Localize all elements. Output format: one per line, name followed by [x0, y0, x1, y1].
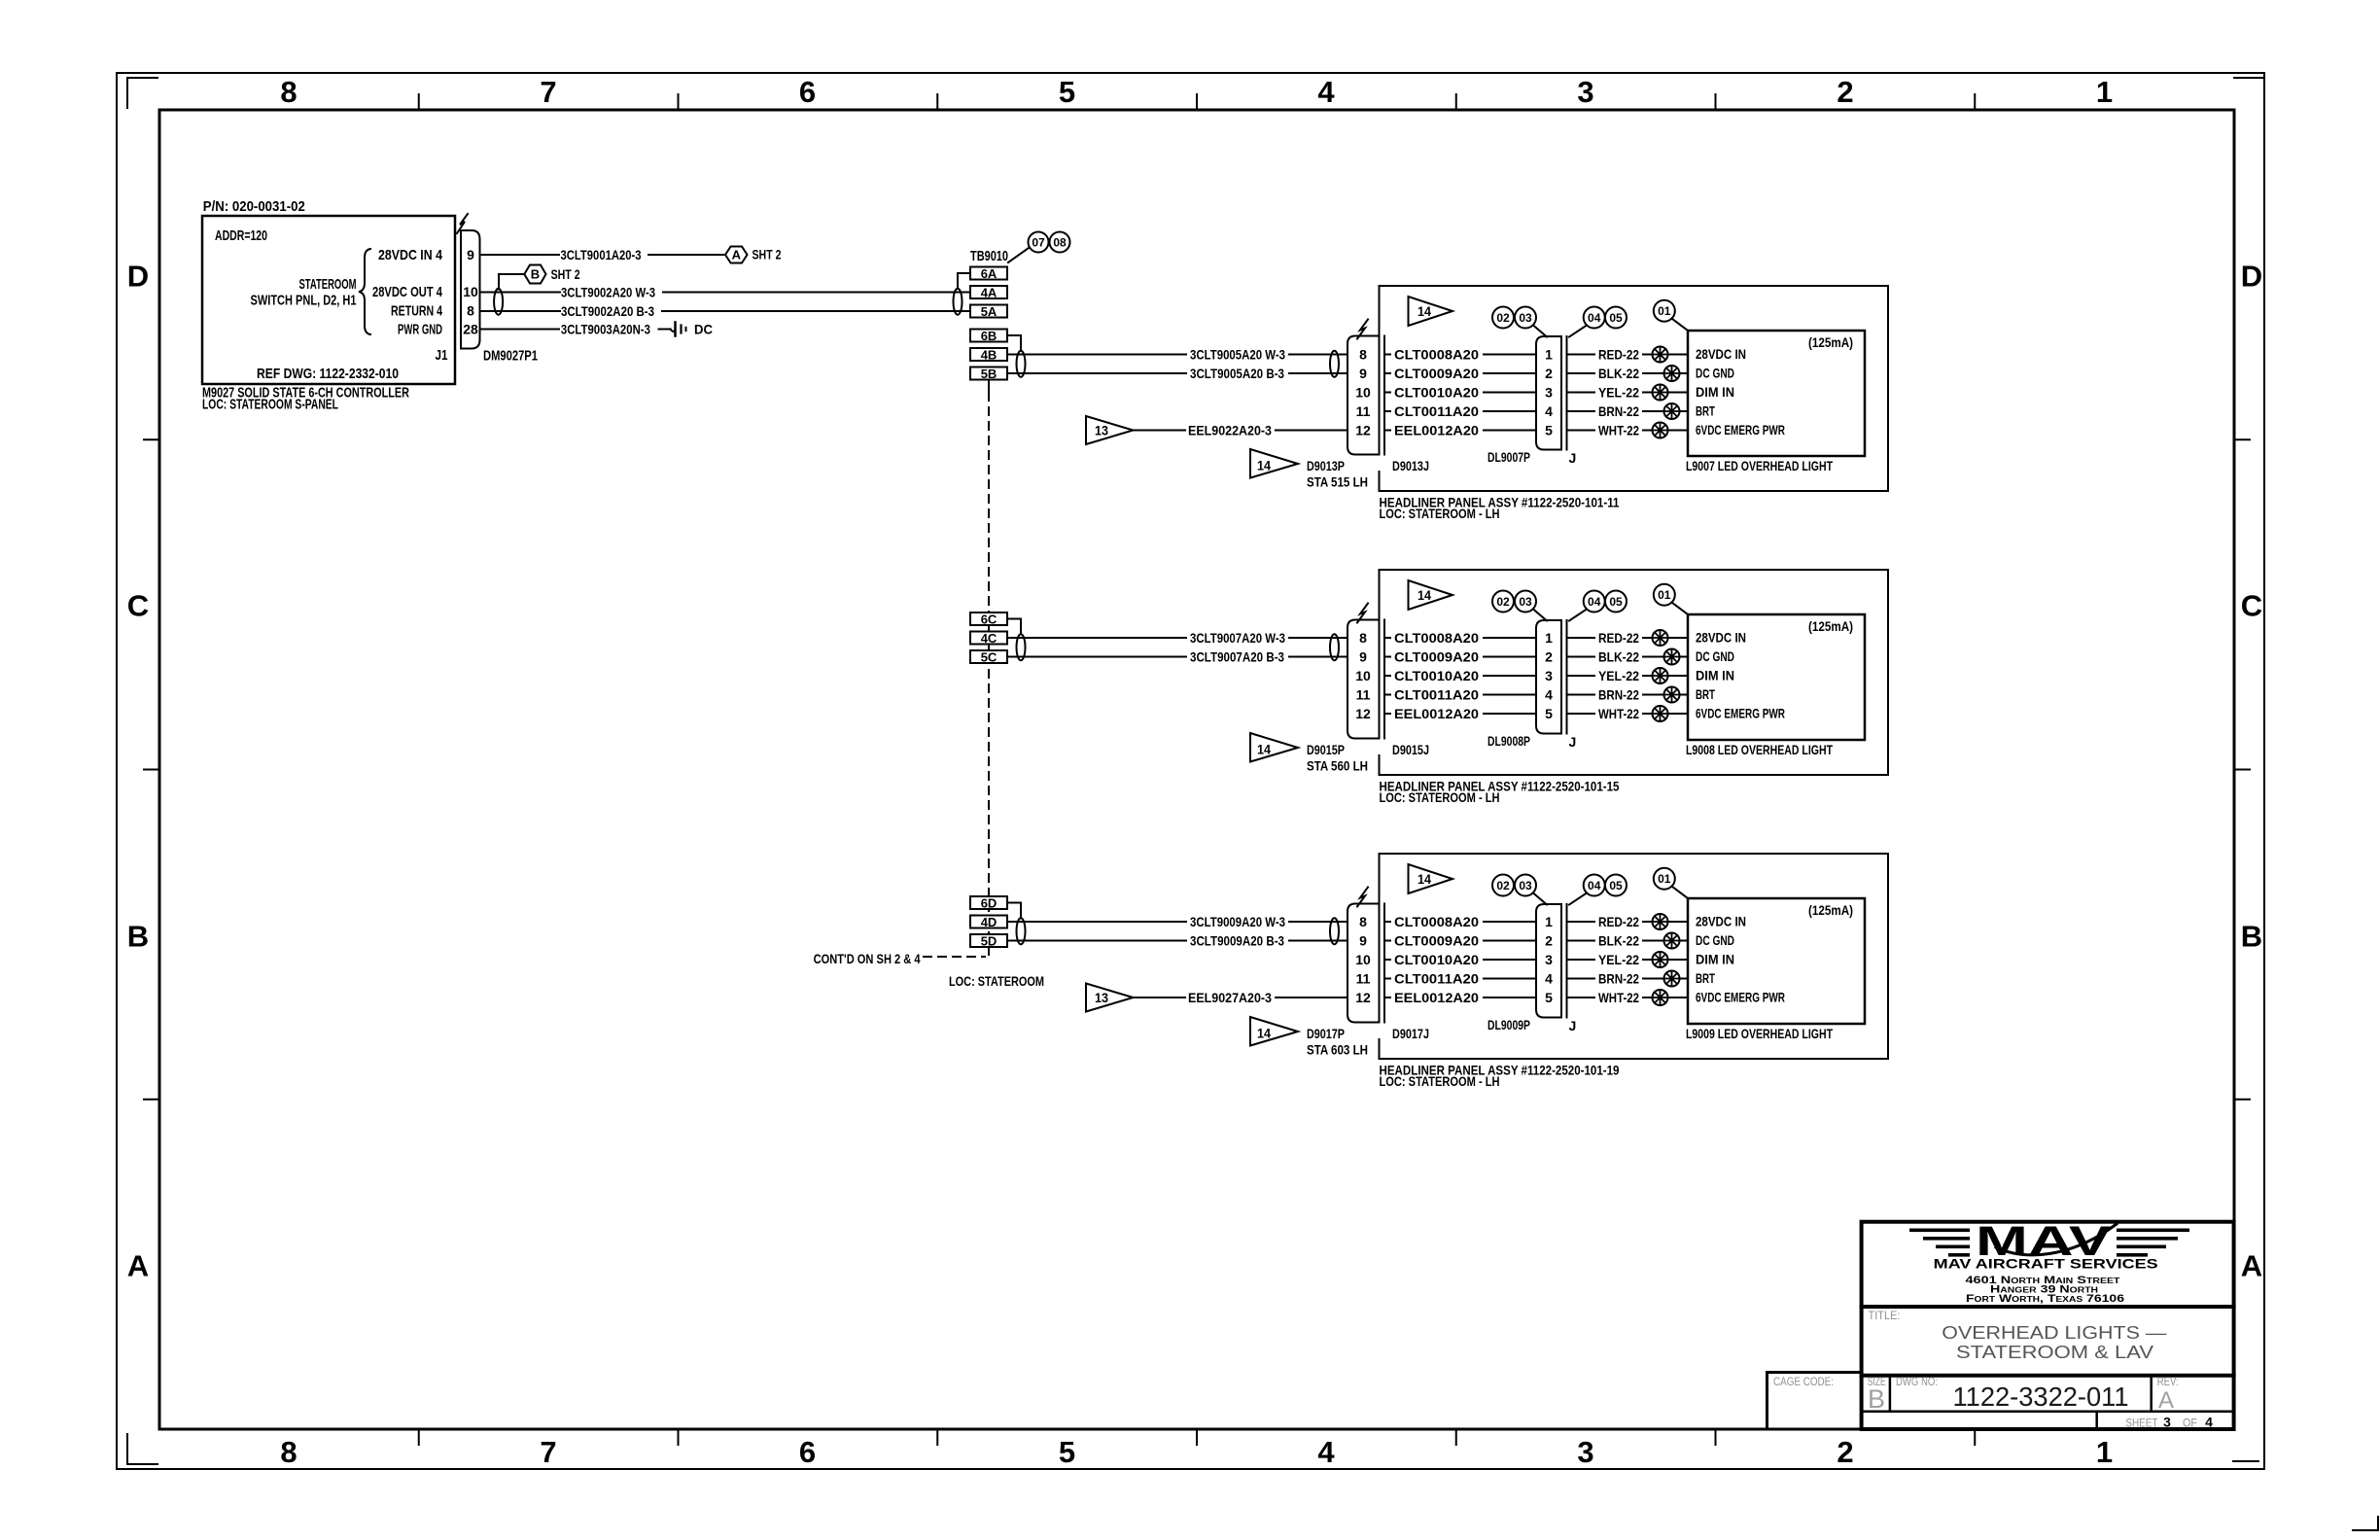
svg-text:9: 9 [1359, 933, 1367, 949]
connector DL9009P shell [1536, 904, 1561, 1018]
corner mark top-left [127, 78, 157, 108]
svg-text:6C: 6C [981, 612, 997, 627]
connector P label D9013P [1307, 458, 1368, 490]
wire BLK-22 with lamp [1567, 366, 1689, 381]
svg-text:1122-3322-011: 1122-3322-011 [1953, 1382, 2129, 1412]
function circles 04 05 [1584, 307, 1627, 329]
light port labels [1696, 914, 1785, 1005]
svg-text:WHT-22: WHT-22 [1598, 423, 1639, 438]
svg-text:CLT0010A20: CLT0010A20 [1394, 385, 1479, 401]
terminal 5D [970, 934, 1007, 949]
svg-text:C: C [127, 589, 149, 623]
rev cell divider [2150, 1376, 2152, 1412]
svg-text:01: 01 [1658, 304, 1671, 318]
svg-text:28VDC IN: 28VDC IN [1696, 630, 1746, 646]
svg-text:D: D [127, 260, 149, 294]
svg-text:11: 11 [1356, 687, 1371, 703]
svg-text:11: 11 [1356, 403, 1371, 419]
svg-text:TB9010: TB9010 [970, 248, 1008, 264]
connector DM9027P1 J-side bar [460, 230, 462, 349]
svg-text:(125mA): (125mA) [1808, 618, 1853, 634]
title section divider [1862, 1374, 2234, 1378]
flag triangle 14 top [1409, 864, 1453, 893]
connector P label D9015P [1307, 742, 1368, 774]
svg-text:28: 28 [463, 322, 478, 337]
wire WHT-22 with lamp [1567, 706, 1689, 721]
svg-text:BRN-22: BRN-22 [1598, 687, 1639, 703]
svg-text:5: 5 [1059, 75, 1075, 109]
wire pin 28 [480, 329, 560, 331]
svg-text:DC: DC [694, 322, 713, 337]
svg-text:CLT0009A20: CLT0009A20 [1394, 649, 1479, 665]
off-sheet flag B [524, 265, 545, 284]
svg-text:28VDC OUT 4: 28VDC OUT 4 [372, 284, 442, 300]
svg-text:04: 04 [1588, 595, 1601, 609]
connector D9017J bar [1383, 904, 1385, 1023]
svg-text:4: 4 [1317, 75, 1335, 109]
svg-text:4D: 4D [981, 915, 997, 929]
svg-text:3CLT9003A20N-3: 3CLT9003A20N-3 [561, 322, 650, 337]
svg-text:PWR GND: PWR GND [398, 322, 442, 338]
svg-text:SHT 2: SHT 2 [752, 247, 782, 262]
terminal 5C [970, 650, 1007, 665]
connector DM9027P1 shell [461, 230, 480, 349]
svg-text:3CLT9002A20 B-3: 3CLT9002A20 B-3 [561, 303, 654, 319]
wire 3CLT9005A20 W-3 [1007, 347, 1347, 363]
connector label DL9008P [1487, 733, 1576, 750]
lamp symbol [1664, 933, 1680, 949]
wire CLT0010A20 row 3 [1384, 385, 1536, 401]
wire EEL9027A20-3 [1134, 990, 1348, 1005]
svg-text:D9013P: D9013P [1307, 458, 1345, 473]
svg-text:5C: 5C [981, 650, 997, 665]
corner mark top-right [2234, 77, 2263, 79]
wire BLK-22 with lamp [1567, 933, 1689, 949]
drawing title [1942, 1322, 2167, 1362]
svg-text:14: 14 [1257, 1026, 1271, 1041]
wire 3CLT9007A20 W-3 [1007, 630, 1347, 646]
wire RED-22 with lamp [1567, 630, 1689, 646]
svg-text:B: B [127, 920, 149, 954]
svg-text:STA 603 LH: STA 603 LH [1307, 1042, 1368, 1058]
function circles 04 05 [1584, 591, 1627, 612]
connector DL9009P bars [1561, 904, 1567, 1018]
page corner trim mark bottom-right [2353, 1517, 2378, 1530]
svg-text:28VDC IN 4: 28VDC IN 4 [378, 247, 443, 263]
svg-text:RED-22: RED-22 [1598, 347, 1639, 363]
svg-text:BRN-22: BRN-22 [1598, 403, 1639, 419]
wire 3CLT9009A20 B-3 [1007, 933, 1347, 949]
terminal 6B link wire [1007, 335, 1021, 351]
svg-text:EEL0012A20: EEL0012A20 [1394, 423, 1479, 438]
svg-text:(125mA): (125mA) [1808, 902, 1853, 918]
svg-text:2: 2 [1545, 933, 1553, 949]
svg-text:EEL9022A20-3: EEL9022A20-3 [1188, 423, 1272, 438]
svg-text:RED-22: RED-22 [1598, 630, 1639, 646]
terminal 6C link wire [1007, 619, 1021, 635]
wire CLT0010A20 row 3 [1384, 668, 1536, 683]
terminal 6C [970, 612, 1007, 627]
connector break symbol [1357, 320, 1368, 339]
svg-text:D9017J: D9017J [1392, 1026, 1429, 1041]
svg-text:4: 4 [1545, 403, 1553, 419]
border frame inner [159, 110, 2234, 1429]
svg-text:6A: 6A [981, 266, 997, 281]
lamp symbol [1664, 687, 1680, 703]
connector D9015J bar [1383, 620, 1385, 739]
svg-text:DC GND: DC GND [1696, 366, 1734, 381]
svg-text:LOC: STATEROOM - LH: LOC: STATEROOM - LH [1380, 506, 1500, 521]
svg-text:9: 9 [1359, 649, 1367, 665]
svg-text:3: 3 [1577, 1435, 1593, 1469]
MAV logo speed bars right [2117, 1229, 2189, 1257]
wire BRN-22 with lamp [1567, 971, 1689, 987]
terminal 4A [970, 286, 1007, 300]
connector pin numbers 1-5 [1545, 914, 1553, 1005]
lamp symbol [1664, 366, 1680, 381]
wire YEL-22 with lamp [1567, 668, 1689, 683]
svg-text:7: 7 [540, 1435, 556, 1469]
LED light box L9008 [1688, 614, 1865, 740]
lamp symbol [1664, 403, 1680, 419]
svg-text:05: 05 [1609, 879, 1623, 892]
connector DL9008P bars [1561, 620, 1567, 734]
wire BRN-22 with lamp [1567, 687, 1689, 703]
twisted pair shield oval TB side [1017, 351, 1026, 377]
wire 3CLT9007A20 B-3 [1007, 649, 1347, 665]
company address [1966, 1275, 2125, 1305]
svg-text:STA 560 LH: STA 560 LH [1307, 758, 1368, 774]
svg-text:3CLT9007A20 B-3: 3CLT9007A20 B-3 [1190, 649, 1284, 665]
svg-text:28VDC IN: 28VDC IN [1696, 914, 1746, 929]
wire CLT0008A20 row 1 [1384, 914, 1536, 929]
zone tick marks top [419, 94, 1976, 110]
logo section divider [1862, 1305, 2234, 1309]
svg-text:14: 14 [1257, 458, 1271, 473]
wire EEL9022A20-3 [1134, 423, 1348, 438]
terminal 4D [970, 915, 1007, 929]
wire to sheet flag A [648, 254, 723, 256]
svg-text:6VDC EMERG PWR: 6VDC EMERG PWR [1696, 422, 1785, 437]
svg-text:STATEROOM & LAV: STATEROOM & LAV [1956, 1342, 2154, 1362]
svg-text:03: 03 [1519, 311, 1532, 325]
wire EEL0012A20 row 5 [1384, 706, 1536, 721]
flag triangle 13 [1086, 984, 1134, 1012]
svg-text:CLT0010A20: CLT0010A20 [1394, 952, 1479, 967]
svg-text:BRT: BRT [1696, 970, 1715, 986]
svg-text:C: C [2241, 589, 2262, 623]
leader 03 to connector [1533, 326, 1547, 337]
leader 04 to connector [1569, 610, 1587, 621]
connector D9013P/D9013J shell [1347, 336, 1380, 455]
svg-text:4: 4 [1545, 687, 1553, 703]
function circle 07 [1029, 232, 1049, 253]
svg-text:5D: 5D [981, 934, 997, 949]
function circles 02 03 [1492, 307, 1536, 329]
zone tick marks bottom [419, 1429, 1976, 1445]
zone tick marks right [2234, 439, 2250, 1100]
svg-text:TITLE:: TITLE: [1869, 1309, 1901, 1322]
svg-text:BRN-22: BRN-22 [1598, 971, 1639, 987]
svg-text:L9007 LED OVERHEAD LIGHT: L9007 LED OVERHEAD LIGHT [1686, 458, 1833, 473]
connector D9015P/D9015J shell [1347, 620, 1380, 739]
svg-text:OF: OF [2183, 1417, 2197, 1430]
DC ground symbol [671, 323, 686, 336]
connector pin numbers 8-12 [1355, 630, 1371, 721]
svg-text:10: 10 [1355, 385, 1371, 401]
function circle 01 [1654, 300, 1675, 322]
lamp symbol [1664, 649, 1680, 665]
svg-text:CLT0011A20: CLT0011A20 [1394, 403, 1479, 419]
light port labels [1696, 346, 1785, 437]
wire flag B to shield [499, 274, 524, 290]
svg-text:REF DWG: 1122-2332-010: REF DWG: 1122-2332-010 [257, 366, 399, 382]
lamp symbol [1653, 423, 1668, 438]
svg-text:5: 5 [1545, 706, 1553, 721]
connector break symbol [1357, 888, 1368, 907]
flag triangle 14 top [1409, 297, 1453, 326]
flag triangle 14 bottom [1250, 733, 1298, 762]
svg-text:D9013J: D9013J [1392, 458, 1429, 473]
svg-text:3CLT9002A20 W-3: 3CLT9002A20 W-3 [561, 285, 655, 300]
svg-text:10: 10 [1355, 668, 1371, 683]
svg-text:3: 3 [1545, 668, 1553, 683]
svg-text:P/N: 020-0031-02: P/N: 020-0031-02 [203, 198, 305, 215]
leader 03 to connector [1533, 893, 1547, 905]
svg-text:A: A [127, 1249, 149, 1283]
flag triangle 14 top [1409, 580, 1453, 610]
svg-text:B: B [1868, 1384, 1885, 1414]
svg-text:8: 8 [1359, 630, 1367, 646]
MAV logo swoosh [1996, 1224, 2117, 1255]
svg-text:8: 8 [280, 1435, 297, 1469]
svg-text:LOC: STATEROOM - LH: LOC: STATEROOM - LH [1380, 1073, 1500, 1089]
svg-text:D9017P: D9017P [1307, 1026, 1345, 1041]
svg-text:1: 1 [1545, 630, 1553, 646]
flag triangle 14 bottom [1250, 1017, 1298, 1046]
svg-text:BLK-22: BLK-22 [1598, 366, 1639, 381]
svg-text:WHT-22: WHT-22 [1598, 990, 1639, 1005]
wire WHT-22 with lamp [1567, 990, 1689, 1005]
connector pin numbers 1-5 [1545, 630, 1553, 721]
leader 01 to light box [1672, 603, 1689, 615]
svg-text:CAGE CODE:: CAGE CODE: [1773, 1375, 1834, 1388]
zone tick marks left [144, 439, 159, 1100]
svg-text:BRT: BRT [1696, 403, 1715, 419]
svg-text:BLK-22: BLK-22 [1598, 933, 1639, 949]
connector DL9007P shell [1536, 336, 1561, 450]
svg-text:6B: 6B [981, 329, 997, 343]
connector break symbol [1357, 604, 1368, 623]
svg-text:L9009 LED OVERHEAD LIGHT: L9009 LED OVERHEAD LIGHT [1686, 1026, 1833, 1041]
svg-text:12: 12 [1355, 706, 1371, 721]
svg-text:10: 10 [1355, 952, 1371, 967]
title block main box [1862, 1222, 2234, 1429]
svg-text:D9015P: D9015P [1307, 742, 1345, 757]
connector pin numbers 8-12 [1355, 914, 1371, 1005]
connector pin numbers 8-12 [1355, 347, 1371, 438]
twisted pair shield oval controller side [494, 289, 503, 315]
terminal 6D [970, 896, 1007, 911]
lamp symbol [1653, 385, 1668, 401]
svg-text:REV:: REV: [2157, 1375, 2179, 1388]
wire 3CLT9005A20 B-3 [1007, 366, 1347, 381]
svg-text:04: 04 [1588, 879, 1601, 892]
svg-text:A: A [732, 248, 742, 262]
svg-text:5A: 5A [981, 304, 997, 319]
svg-text:07: 07 [1032, 236, 1045, 250]
lamp symbol [1653, 668, 1668, 683]
wire YEL-22 with lamp [1567, 952, 1689, 967]
svg-text:01: 01 [1658, 872, 1671, 886]
svg-text:DL9008P: DL9008P [1487, 733, 1530, 749]
REV label [2157, 1375, 2179, 1414]
lamp symbol [1653, 630, 1668, 646]
svg-text:1: 1 [1545, 347, 1553, 363]
svg-text:3CLT9009A20 B-3: 3CLT9009A20 B-3 [1190, 933, 1284, 949]
svg-text:CLT0010A20: CLT0010A20 [1394, 668, 1479, 683]
svg-text:Fort Worth, Texas 76106: Fort Worth, Texas 76106 [1966, 1293, 2124, 1305]
svg-text:14: 14 [1417, 871, 1431, 887]
svg-text:3CLT9001A20-3: 3CLT9001A20-3 [561, 247, 642, 262]
svg-text:3CLT9007A20 W-3: 3CLT9007A20 W-3 [1190, 630, 1285, 646]
svg-text:28VDC IN: 28VDC IN [1696, 346, 1746, 362]
connector DL9007P bars [1561, 336, 1567, 450]
wire CLT0010A20 row 3 [1384, 952, 1536, 967]
svg-text:BRT: BRT [1696, 686, 1715, 702]
svg-text:5: 5 [1545, 990, 1553, 1005]
connector D9013J bar [1383, 336, 1385, 455]
svg-text:WHT-22: WHT-22 [1598, 706, 1639, 721]
svg-text:A: A [2241, 1249, 2262, 1283]
twisted pair shield oval TB side [1017, 918, 1026, 944]
svg-text:3: 3 [1545, 952, 1553, 967]
svg-text:5: 5 [1059, 1435, 1075, 1469]
connector pin numbers 1-5 [1545, 347, 1553, 438]
svg-text:1: 1 [1545, 914, 1553, 929]
svg-text:14: 14 [1257, 742, 1271, 757]
headliner panel box 1 [1380, 286, 1889, 491]
flag triangle 14 bottom [1250, 449, 1298, 478]
svg-text:08: 08 [1053, 236, 1067, 250]
dwg row divider [1862, 1410, 2234, 1413]
svg-text:BLK-22: BLK-22 [1598, 649, 1639, 665]
svg-text:EEL0012A20: EEL0012A20 [1394, 706, 1479, 721]
wire EEL0012A20 row 5 [1384, 423, 1536, 438]
wire WHT-22 with lamp [1567, 423, 1689, 438]
headliner panel assy label [1380, 495, 1620, 521]
svg-text:YEL-22: YEL-22 [1598, 952, 1639, 967]
svg-text:DIM IN: DIM IN [1696, 384, 1734, 400]
controller pin function labels [372, 247, 443, 338]
wire pin 10 [480, 292, 561, 294]
wire to DC ground [659, 329, 671, 331]
svg-text:4: 4 [1317, 1435, 1335, 1469]
LED light box L9009 [1688, 898, 1865, 1024]
svg-text:B: B [2241, 920, 2262, 954]
wire CLT0011A20 row 4 [1384, 687, 1536, 703]
svg-text:YEL-22: YEL-22 [1598, 668, 1639, 683]
MAV logo speed bars left [1909, 1229, 1970, 1257]
svg-text:14: 14 [1417, 587, 1431, 603]
svg-text:4C: 4C [981, 631, 997, 646]
function circle 08 [1050, 232, 1070, 253]
svg-text:CONT'D ON SH 2 & 4: CONT'D ON SH 2 & 4 [814, 951, 921, 966]
corner mark bottom-left [127, 1434, 157, 1464]
controller switch panel source labels [251, 276, 357, 309]
svg-text:CLT0008A20: CLT0008A20 [1394, 630, 1479, 646]
svg-text:3: 3 [1545, 385, 1553, 401]
svg-text:2: 2 [1545, 649, 1553, 665]
wire CLT0009A20 row 2 [1384, 933, 1536, 949]
terminal 6B [970, 329, 1007, 343]
leader 04 to connector [1569, 893, 1587, 905]
svg-text:5B: 5B [981, 367, 997, 381]
wire RED-22 with lamp [1567, 347, 1689, 363]
connector D9017P/D9017J shell [1347, 904, 1380, 1023]
svg-text:03: 03 [1519, 879, 1532, 892]
svg-text:SHT 2: SHT 2 [551, 266, 580, 282]
wire pin8 to terminal 5A [662, 310, 970, 312]
svg-text:4: 4 [2205, 1415, 2213, 1430]
svg-text:MAV AIRCRAFT SERVICES: MAV AIRCRAFT SERVICES [1934, 1255, 2158, 1271]
function circles 02 03 [1492, 875, 1536, 896]
svg-text:DL9007P: DL9007P [1487, 449, 1530, 465]
svg-text:05: 05 [1609, 311, 1623, 325]
svg-text:4B: 4B [981, 348, 997, 363]
zone numbers bottom 8-1 [280, 1435, 2113, 1469]
connector DL9008P shell [1536, 620, 1561, 734]
cage code cell [1767, 1373, 1862, 1430]
svg-text:04: 04 [1588, 311, 1601, 325]
SIZE label [1868, 1375, 1886, 1414]
terminal 6A link wire [958, 273, 970, 289]
zone letters right D C B A [2241, 260, 2262, 1283]
flag triangle 13 [1086, 416, 1134, 444]
svg-text:9: 9 [467, 247, 474, 262]
svg-text:2: 2 [1837, 1435, 1853, 1469]
controller M9027 box [202, 216, 455, 384]
svg-text:EEL9027A20-3: EEL9027A20-3 [1188, 990, 1272, 1005]
svg-text:L9008 LED OVERHEAD LIGHT: L9008 LED OVERHEAD LIGHT [1686, 742, 1833, 757]
connector P label D9017P [1307, 1026, 1368, 1058]
svg-text:J1: J1 [436, 347, 448, 364]
svg-text:RED-22: RED-22 [1598, 914, 1639, 929]
corner mark bottom-right [2233, 1460, 2258, 1462]
svg-text:SHEET: SHEET [2125, 1417, 2158, 1430]
terminal 4B [970, 348, 1007, 363]
svg-text:CLT0008A20: CLT0008A20 [1394, 914, 1479, 929]
svg-text:CLT0008A20: CLT0008A20 [1394, 347, 1479, 363]
svg-text:CLT0011A20: CLT0011A20 [1394, 687, 1479, 703]
svg-text:02: 02 [1496, 595, 1510, 609]
svg-text:1: 1 [2096, 1435, 2113, 1469]
svg-text:B: B [531, 267, 540, 282]
svg-text:OVERHEAD LIGHTS —: OVERHEAD LIGHTS — [1942, 1322, 2167, 1343]
twisted pair shield oval TB side [1017, 634, 1026, 660]
svg-text:RETURN 4: RETURN 4 [391, 303, 442, 320]
svg-text:12: 12 [1355, 423, 1371, 438]
sheet row divider [2095, 1412, 2098, 1429]
svg-text:1: 1 [2096, 75, 2113, 109]
svg-text:ADDR=120: ADDR=120 [215, 227, 267, 244]
svg-text:6VDC EMERG PWR: 6VDC EMERG PWR [1696, 706, 1785, 721]
svg-text:D: D [2241, 260, 2262, 294]
svg-text:DWG NO:: DWG NO: [1896, 1375, 1938, 1388]
svg-text:DC GND: DC GND [1696, 932, 1734, 948]
wire BRN-22 with lamp [1567, 403, 1689, 419]
light port labels [1696, 630, 1785, 721]
